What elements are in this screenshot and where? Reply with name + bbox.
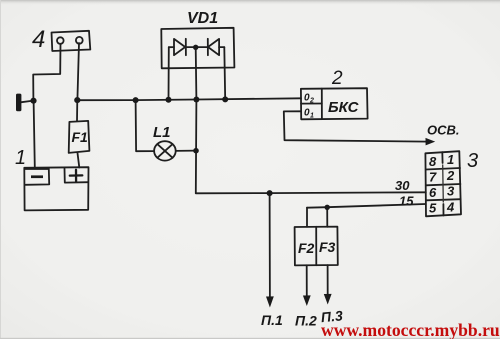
- svg-text:2: 2: [309, 98, 314, 105]
- svg-text:F1: F1: [72, 129, 89, 145]
- svg-text:3: 3: [447, 184, 455, 199]
- svg-text:ОСВ.: ОСВ.: [427, 123, 460, 138]
- svg-text:1: 1: [447, 152, 454, 167]
- svg-text:2: 2: [331, 68, 343, 89]
- svg-text:VD1: VD1: [187, 10, 218, 27]
- svg-text:4: 4: [32, 26, 45, 53]
- svg-text:П.2: П.2: [295, 313, 317, 329]
- svg-text:4: 4: [446, 200, 455, 215]
- svg-text:1: 1: [310, 113, 314, 120]
- svg-text:2: 2: [446, 168, 455, 183]
- svg-text:П.1: П.1: [261, 312, 283, 328]
- svg-text:www.motocccr.mybb.ru: www.motocccr.mybb.ru: [321, 320, 500, 339]
- svg-text:15: 15: [399, 194, 414, 209]
- svg-text:L1: L1: [153, 124, 171, 141]
- svg-text:F3: F3: [319, 239, 336, 255]
- svg-text:30: 30: [395, 178, 410, 193]
- svg-text:8: 8: [429, 154, 437, 169]
- svg-text:3: 3: [467, 150, 478, 172]
- svg-text:1: 1: [15, 147, 26, 169]
- svg-text:БКС: БКС: [328, 99, 360, 116]
- svg-text:F2: F2: [298, 240, 315, 256]
- svg-text:5: 5: [429, 201, 437, 216]
- svg-text:6: 6: [429, 185, 437, 200]
- svg-text:7: 7: [429, 170, 437, 185]
